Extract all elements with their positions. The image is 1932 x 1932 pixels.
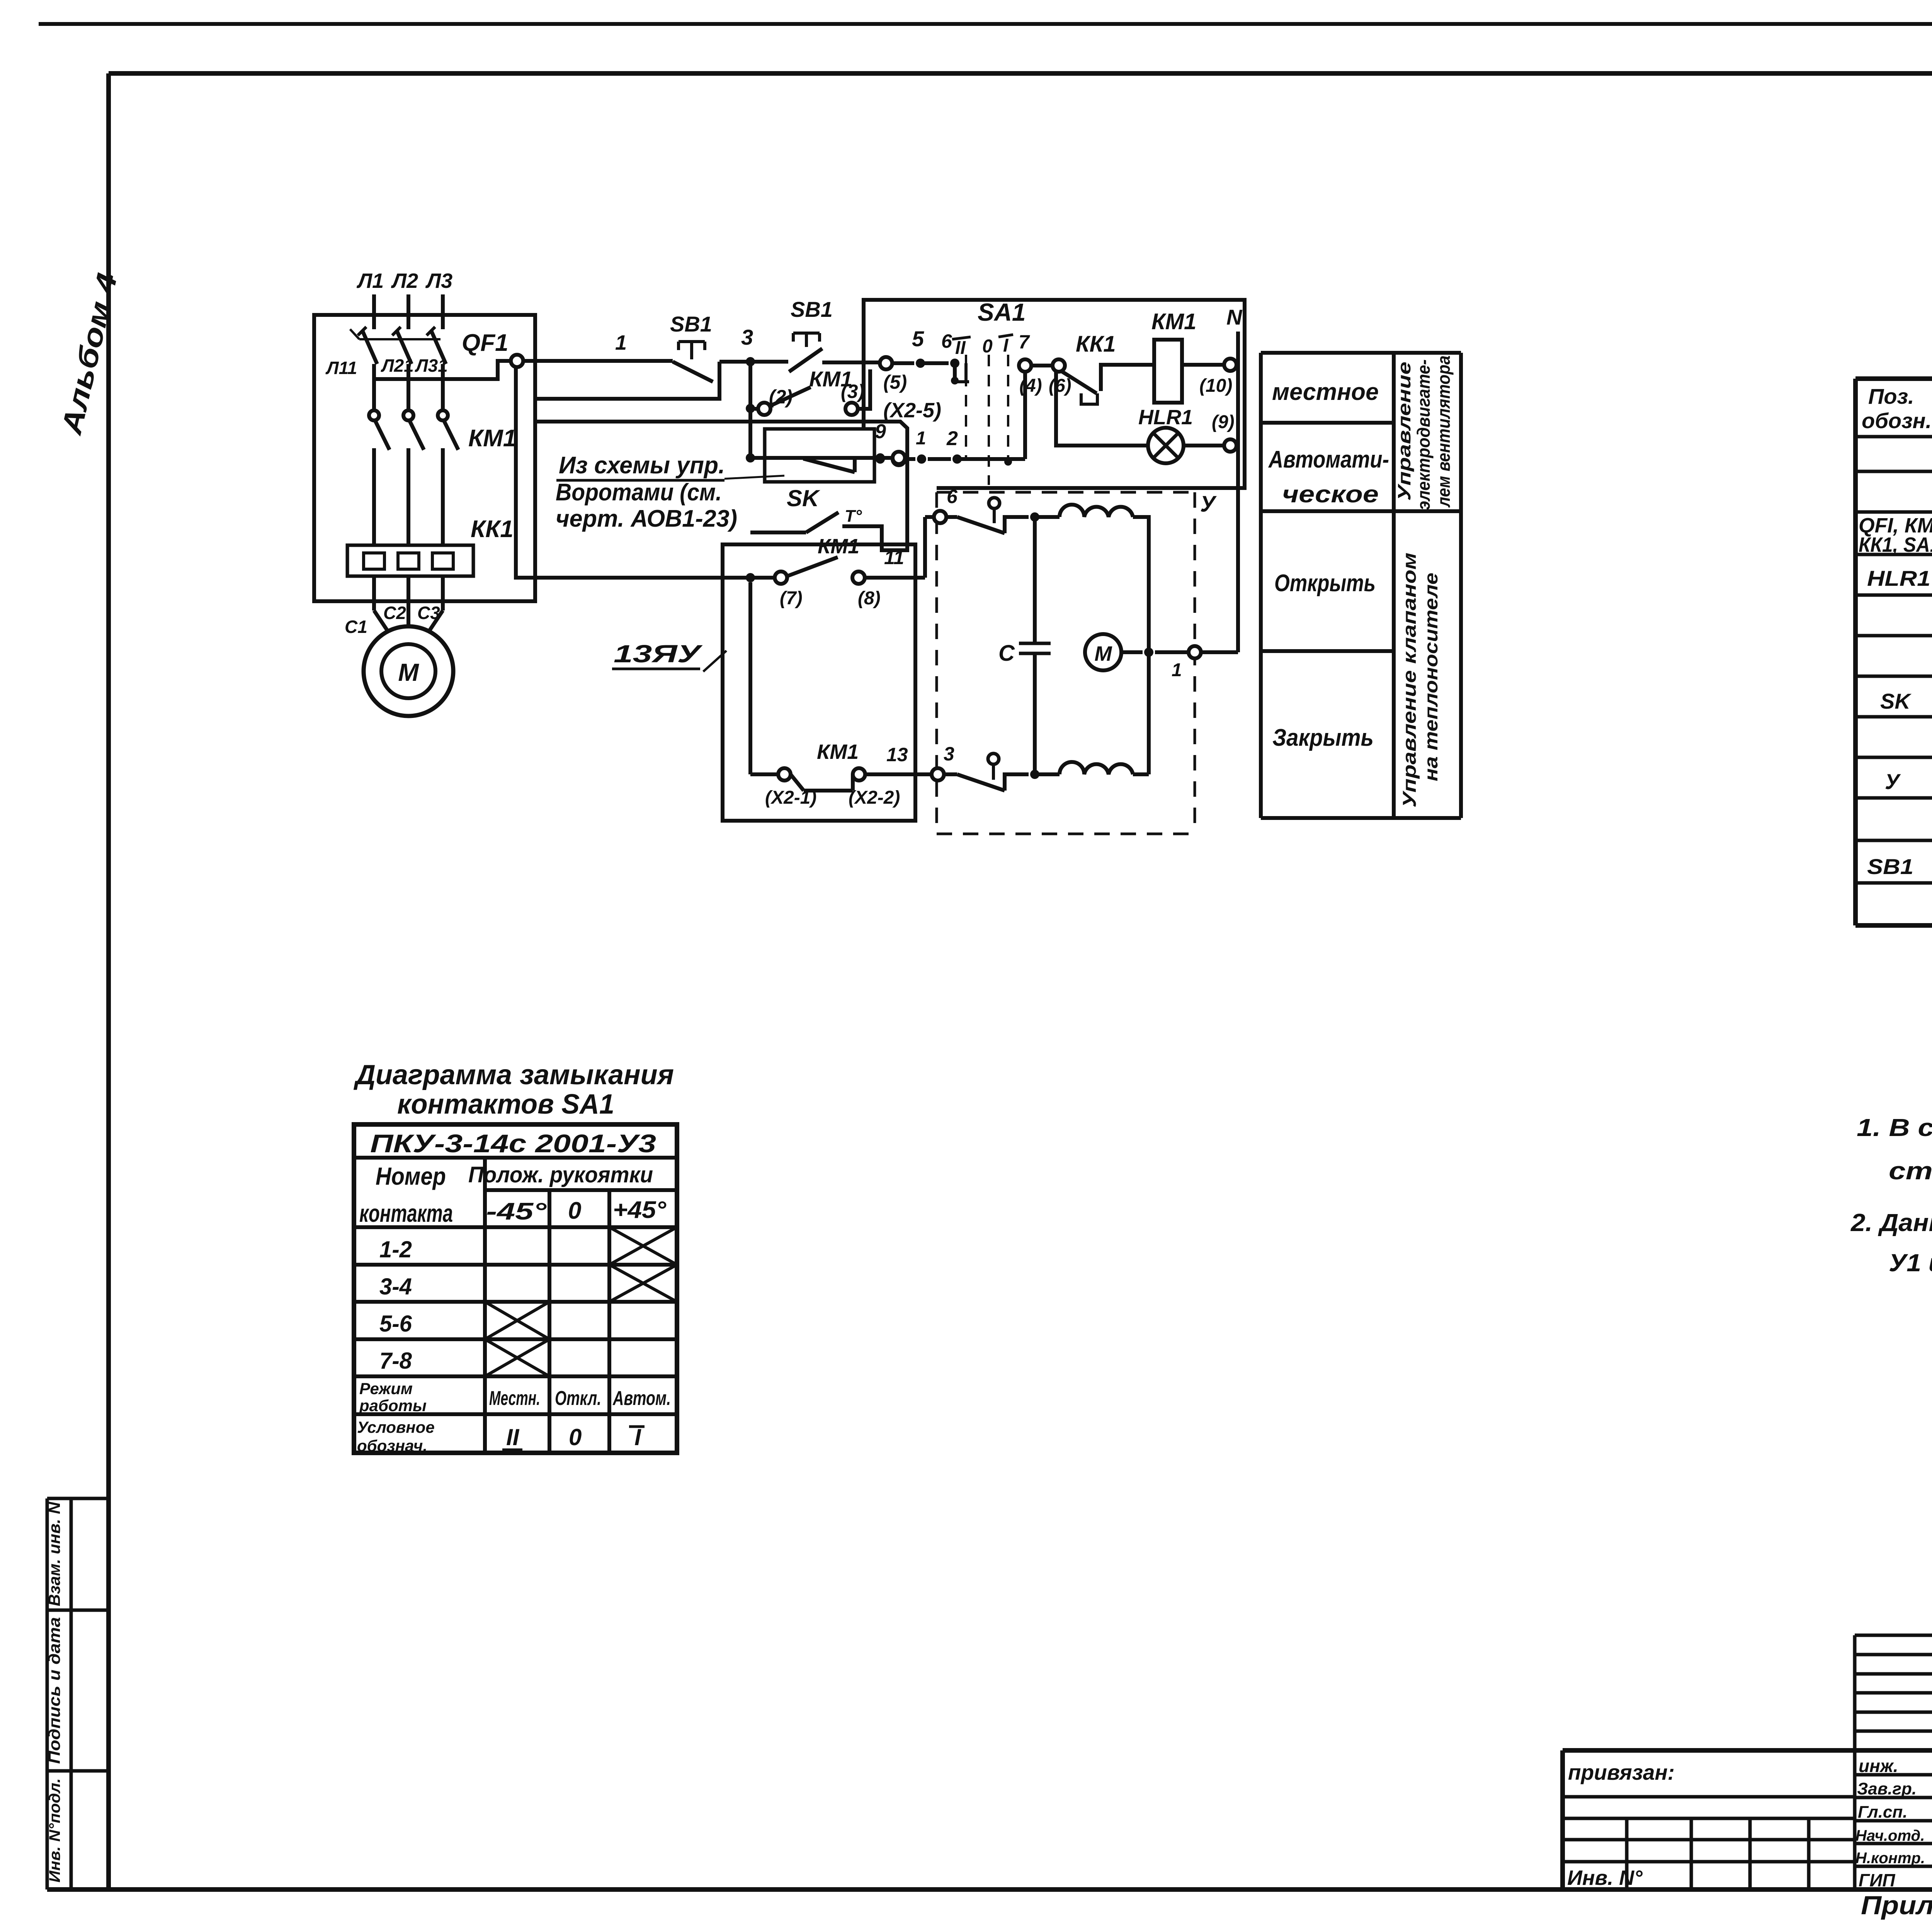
svg-text:(5): (5) bbox=[883, 371, 907, 393]
svg-text:Л3: Л3 bbox=[425, 269, 452, 293]
svg-text:инж.: инж. bbox=[1859, 1756, 1898, 1776]
svg-text:3: 3 bbox=[741, 325, 753, 349]
svg-text:Л1: Л1 bbox=[356, 269, 384, 293]
svg-text:HLR1: HLR1 bbox=[1138, 406, 1193, 429]
svg-text:SB1: SB1 bbox=[791, 297, 833, 321]
svg-text:обозн.: обозн. bbox=[1862, 408, 1932, 433]
svg-text:обознач.: обознач. bbox=[357, 1437, 427, 1455]
svg-text:на теплоносителе: на теплоносителе bbox=[1421, 573, 1442, 781]
svg-text:контактов SA1: контактов SA1 bbox=[397, 1089, 614, 1120]
svg-text:5: 5 bbox=[912, 327, 924, 351]
svg-text:+45°: +45° bbox=[613, 1197, 667, 1223]
svg-text:0: 0 bbox=[569, 1424, 582, 1450]
svg-text:(6): (6) bbox=[1049, 376, 1071, 396]
svg-text:Прилуцкая: Прилуцкая bbox=[1861, 1891, 1932, 1920]
svg-text:2. Данная схема выполнена дл: 2. Данная схема выполнена для воздушно-т… bbox=[1850, 1209, 1932, 1236]
svg-text:7: 7 bbox=[1019, 331, 1030, 353]
svg-text:Взам. инв. N: Взам. инв. N bbox=[45, 1501, 63, 1606]
svg-text:С3: С3 bbox=[417, 603, 440, 623]
svg-text:1-2: 1-2 bbox=[379, 1236, 412, 1262]
svg-text:(4): (4) bbox=[1019, 376, 1042, 396]
svg-text:SB1: SB1 bbox=[670, 312, 712, 336]
svg-text:Номер: Номер bbox=[376, 1162, 446, 1190]
svg-text:ческое: ческое bbox=[1282, 481, 1379, 508]
svg-text:контакта: контакта bbox=[359, 1199, 453, 1227]
svg-text:Закрыть: Закрыть bbox=[1272, 724, 1374, 751]
svg-text:0: 0 bbox=[568, 1197, 581, 1224]
svg-text:Н.контр.: Н.контр. bbox=[1855, 1850, 1925, 1867]
svg-text:Л2: Л2 bbox=[391, 269, 418, 293]
svg-text:М: М bbox=[1095, 642, 1112, 665]
svg-text:С2: С2 bbox=[383, 603, 406, 623]
svg-text:7-8: 7-8 bbox=[379, 1348, 412, 1374]
svg-text:У: У bbox=[1885, 769, 1901, 794]
svg-text:КМ1: КМ1 bbox=[817, 740, 859, 764]
svg-text:Управление: Управление bbox=[1394, 362, 1414, 501]
svg-text:ГИП: ГИП bbox=[1859, 1870, 1895, 1890]
svg-text:(X2-2): (X2-2) bbox=[849, 787, 900, 808]
svg-text:КМ1: КМ1 bbox=[818, 535, 859, 558]
svg-text:1: 1 bbox=[615, 331, 627, 354]
svg-text:С1: С1 bbox=[345, 617, 367, 637]
svg-text:0: 0 bbox=[982, 336, 993, 357]
svg-text:6: 6 bbox=[947, 486, 958, 507]
svg-text:I: I bbox=[1003, 335, 1009, 356]
svg-text:Гл.сп.: Гл.сп. bbox=[1858, 1803, 1908, 1821]
svg-text:Л11: Л11 bbox=[325, 358, 357, 378]
svg-text:Инв. N°: Инв. N° bbox=[1567, 1866, 1643, 1889]
svg-text:С: С bbox=[998, 641, 1015, 666]
svg-text:2: 2 bbox=[946, 427, 958, 450]
svg-text:SA1: SA1 bbox=[978, 298, 1026, 326]
svg-text:КМ1: КМ1 bbox=[1151, 309, 1196, 334]
svg-text:Л21: Л21 bbox=[381, 355, 414, 376]
svg-text:(9): (9) bbox=[1212, 412, 1235, 432]
svg-text:М: М bbox=[398, 658, 419, 686]
svg-text:КК1: КК1 bbox=[471, 516, 514, 543]
svg-text:Откл.: Откл. bbox=[555, 1387, 601, 1410]
svg-text:Поз.: Поз. bbox=[1868, 384, 1914, 408]
svg-text:У1 и аналогична для воздушн: У1 и аналогична для воздушно- тепловой з… bbox=[1889, 1249, 1932, 1277]
svg-text:У: У bbox=[1200, 492, 1217, 517]
svg-text:Нач.отд.: Нач.отд. bbox=[1855, 1827, 1925, 1844]
svg-text:привязан:: привязан: bbox=[1568, 1760, 1675, 1784]
svg-text:5-6: 5-6 bbox=[379, 1311, 412, 1337]
svg-text:-45°: -45° bbox=[486, 1198, 547, 1225]
svg-text:N: N bbox=[1226, 305, 1243, 329]
svg-text:Управление клапаном: Управление клапаном bbox=[1400, 553, 1420, 808]
svg-text:Полож. рукоятки: Полож. рукоятки bbox=[468, 1162, 653, 1187]
svg-text:(7): (7) bbox=[780, 588, 803, 609]
svg-text:(3): (3) bbox=[841, 381, 864, 402]
svg-text:ПКУ-3-14с 2001-У3: ПКУ-3-14с 2001-У3 bbox=[370, 1129, 656, 1158]
svg-text:Местн.: Местн. bbox=[489, 1387, 540, 1410]
svg-text:SK: SK bbox=[787, 485, 820, 511]
svg-text:электродвигате-: электродвигате- bbox=[1413, 359, 1434, 510]
svg-text:6: 6 bbox=[941, 330, 952, 352]
svg-text:лем вентилятора: лем вентилятора bbox=[1434, 355, 1454, 508]
svg-text:13ЯУ: 13ЯУ bbox=[614, 640, 703, 668]
svg-text:1. В скобках указана заводская: 1. В скобках указана заводская маркировк… bbox=[1857, 1114, 1932, 1141]
svg-text:Условное: Условное bbox=[357, 1418, 435, 1436]
svg-text:Открыть: Открыть bbox=[1274, 570, 1376, 597]
svg-text:9: 9 bbox=[875, 420, 886, 443]
svg-text:QF1: QF1 bbox=[462, 330, 509, 356]
svg-text:местное: местное bbox=[1272, 379, 1379, 405]
svg-text:3: 3 bbox=[944, 743, 954, 765]
svg-text:Т°: Т° bbox=[845, 507, 862, 526]
svg-text:(2): (2) bbox=[769, 386, 793, 408]
svg-text:II: II bbox=[955, 338, 966, 358]
svg-text:станции управления.: станции управления. bbox=[1889, 1157, 1932, 1185]
svg-text:Диаграмма замыкания: Диаграмма замыкания bbox=[353, 1060, 674, 1090]
svg-text:II: II bbox=[506, 1424, 520, 1450]
svg-text:Воротами (см.: Воротами (см. bbox=[556, 479, 722, 506]
svg-text:(8): (8) bbox=[858, 588, 881, 609]
svg-text:1: 1 bbox=[1172, 660, 1182, 680]
svg-text:КК1: КК1 bbox=[1076, 332, 1116, 357]
svg-text:Инв. N°подл.: Инв. N°подл. bbox=[46, 1778, 63, 1883]
svg-text:11: 11 bbox=[884, 547, 904, 568]
svg-text:13: 13 bbox=[886, 744, 908, 765]
svg-text:Режим: Режим bbox=[359, 1379, 413, 1398]
svg-text:SB1: SB1 bbox=[1867, 854, 1913, 879]
svg-text:SK: SK bbox=[1880, 689, 1912, 713]
svg-text:1: 1 bbox=[916, 428, 926, 449]
svg-text:HLR1: HLR1 bbox=[1867, 566, 1930, 590]
svg-text:Подпись и дата: Подпись и дата bbox=[45, 1617, 63, 1764]
svg-text:(X2-5): (X2-5) bbox=[883, 399, 941, 422]
svg-text:Автом.: Автом. bbox=[612, 1387, 671, 1410]
svg-text:3-4: 3-4 bbox=[379, 1274, 412, 1299]
svg-text:(X2-1): (X2-1) bbox=[765, 787, 816, 808]
svg-text:I: I bbox=[634, 1424, 641, 1450]
svg-text:Зав.гр.: Зав.гр. bbox=[1857, 1779, 1917, 1798]
svg-text:КК1, SA1.: КК1, SA1. bbox=[1859, 533, 1932, 556]
svg-text:КМ1: КМ1 bbox=[468, 425, 516, 452]
svg-text:Автомати-: Автомати- bbox=[1268, 446, 1389, 473]
svg-text:черт. АОВ1-23): черт. АОВ1-23) bbox=[556, 505, 737, 532]
svg-text:работы: работы bbox=[359, 1396, 427, 1415]
svg-text:Л31: Л31 bbox=[415, 355, 448, 376]
svg-text:Из схемы упр.: Из схемы упр. bbox=[559, 452, 725, 479]
svg-text:(10): (10) bbox=[1199, 376, 1232, 396]
